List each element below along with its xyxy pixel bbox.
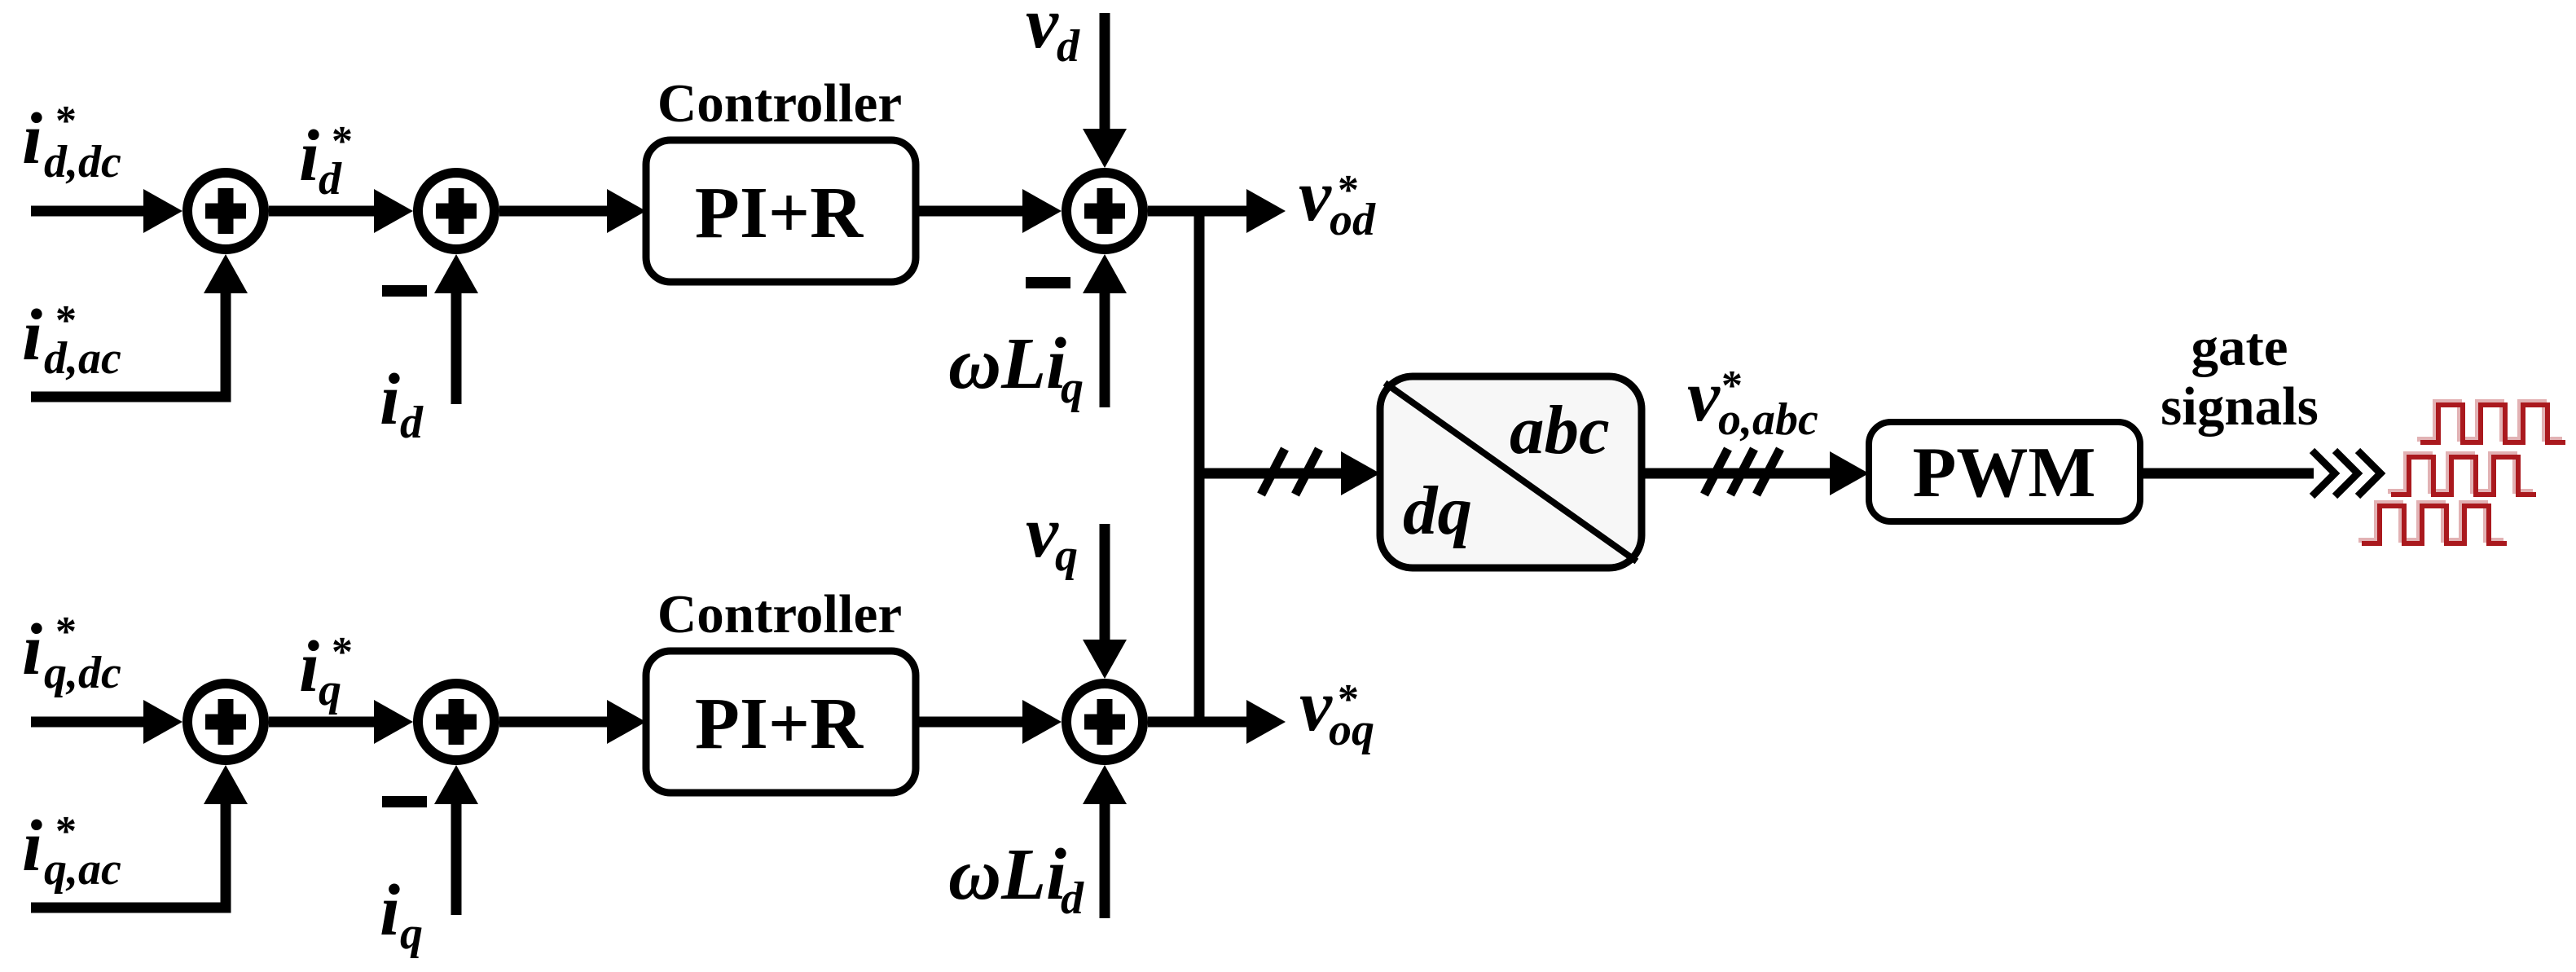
wire dq/abc to PWM xyxy=(1642,451,1869,495)
svg-text:i: i xyxy=(380,870,400,951)
svg-text:q: q xyxy=(1061,363,1084,413)
svg-text:v: v xyxy=(1026,0,1059,64)
svg-text:v: v xyxy=(1026,492,1059,573)
wire i_q into S5 xyxy=(434,765,478,915)
gate waveform top xyxy=(2420,405,2565,442)
wire S3 output to v*_od xyxy=(1148,189,1286,233)
svg-text:PI+R: PI+R xyxy=(695,173,864,253)
summing junction S3 xyxy=(1066,173,1143,249)
label gate signals xyxy=(2161,317,2319,437)
node label i*_d,dc xyxy=(22,98,121,187)
wire S5 to controller xyxy=(499,700,646,744)
svg-text:i: i xyxy=(299,627,319,707)
summing junction S5 xyxy=(418,684,495,760)
wire feedback i*_q,ac xyxy=(31,765,248,908)
transform box dq/abc xyxy=(1380,376,1642,568)
svg-text:gate: gate xyxy=(2191,317,2288,377)
wire S1 to S2 xyxy=(269,189,413,233)
svg-text:i: i xyxy=(22,609,42,690)
svg-text:abc: abc xyxy=(1510,392,1610,468)
summing junction S4 xyxy=(187,684,264,760)
svg-text:q: q xyxy=(319,665,341,715)
svg-text:od: od xyxy=(1330,195,1376,245)
svg-text:q: q xyxy=(400,908,423,959)
svg-text:ωLi: ωLi xyxy=(948,323,1066,404)
svg-text:d,ac: d,ac xyxy=(44,333,121,384)
gate waveform ghost xyxy=(2358,402,2562,540)
wire wLiq into S3 xyxy=(1083,254,1127,407)
bus wire vertical xyxy=(1194,206,1205,722)
node label i*_q,ac xyxy=(22,806,121,895)
svg-text:q,dc: q,dc xyxy=(44,648,121,698)
svg-text:oq: oq xyxy=(1329,705,1374,755)
node label wLid xyxy=(948,834,1084,924)
wire input iq,dc bottom xyxy=(31,700,182,744)
svg-text:o,abc: o,abc xyxy=(1718,394,1818,445)
wire wLid into S6 xyxy=(1083,765,1127,918)
summing junction S1 xyxy=(187,173,264,249)
node label i_d xyxy=(380,359,424,448)
svg-text:i: i xyxy=(22,806,42,886)
summing junction S6 xyxy=(1066,684,1143,760)
node label i*_q xyxy=(299,627,353,715)
svg-text:ωLi: ωLi xyxy=(948,834,1066,915)
svg-text:Controller: Controller xyxy=(657,73,902,134)
minus sign at S5 xyxy=(382,796,427,807)
minus sign at S2 xyxy=(382,285,427,297)
wire v_d into S3 xyxy=(1083,13,1127,168)
svg-text:dq: dq xyxy=(1403,473,1472,549)
node label i*_d xyxy=(299,116,353,205)
svg-text:q: q xyxy=(1055,530,1078,581)
node label v_q xyxy=(1026,492,1078,581)
svg-text:v: v xyxy=(1299,156,1332,236)
wire PWM output xyxy=(2140,468,2314,479)
wire S2 to controller xyxy=(499,189,646,233)
svg-text:d: d xyxy=(1061,873,1084,924)
wire feedback i*_d,ac xyxy=(31,254,248,397)
svg-text:Controller: Controller xyxy=(657,584,902,644)
gate waveform middle xyxy=(2391,457,2536,495)
gate waveform bottom xyxy=(2362,506,2507,543)
svg-text:PI+R: PI+R xyxy=(695,684,864,764)
svg-text:d: d xyxy=(319,154,342,205)
slash marks 3-wide xyxy=(1704,449,1780,495)
wire controller to S3 xyxy=(916,189,1062,233)
chevrons output xyxy=(2312,451,2380,496)
svg-text:i: i xyxy=(22,99,42,179)
node label i_q xyxy=(380,870,423,959)
controller box PI+R (top) xyxy=(646,140,916,282)
wire input id,dc top xyxy=(31,189,182,233)
svg-text:d,dc: d,dc xyxy=(44,137,121,187)
svg-text:d: d xyxy=(400,398,424,448)
node label v*_oq xyxy=(1299,666,1374,755)
svg-text:v: v xyxy=(1299,666,1333,746)
wire v_q into S6 xyxy=(1083,524,1127,679)
node label i*_d,ac xyxy=(22,295,121,384)
svg-text:i: i xyxy=(380,359,400,440)
svg-text:d: d xyxy=(1057,21,1080,72)
node label wLiq xyxy=(948,323,1084,413)
controller box PI+R (bottom) xyxy=(646,651,916,793)
summing junction S2 xyxy=(418,173,495,249)
svg-text:signals: signals xyxy=(2161,376,2319,437)
node label v*_o,abc xyxy=(1687,356,1818,445)
wire controller to S6 xyxy=(916,700,1062,744)
svg-text:v: v xyxy=(1687,356,1721,437)
slash marks 2-wide xyxy=(1261,449,1319,495)
svg-text:i: i xyxy=(22,295,42,376)
svg-text:i: i xyxy=(299,116,319,196)
wire S4 to S5 xyxy=(269,700,413,744)
wire S6 output to v*_oq xyxy=(1148,700,1286,744)
node label v*_od xyxy=(1299,156,1376,245)
svg-text:PWM: PWM xyxy=(1913,433,2096,512)
svg-text:q,ac: q,ac xyxy=(44,844,121,895)
PWM box xyxy=(1869,422,2140,521)
wire i_d into S2 xyxy=(434,254,478,404)
node label i*_q,dc xyxy=(22,609,121,698)
node label v_d xyxy=(1026,0,1080,72)
minus sign at S3 xyxy=(1026,277,1070,288)
wire bus to dq/abc xyxy=(1199,451,1380,495)
